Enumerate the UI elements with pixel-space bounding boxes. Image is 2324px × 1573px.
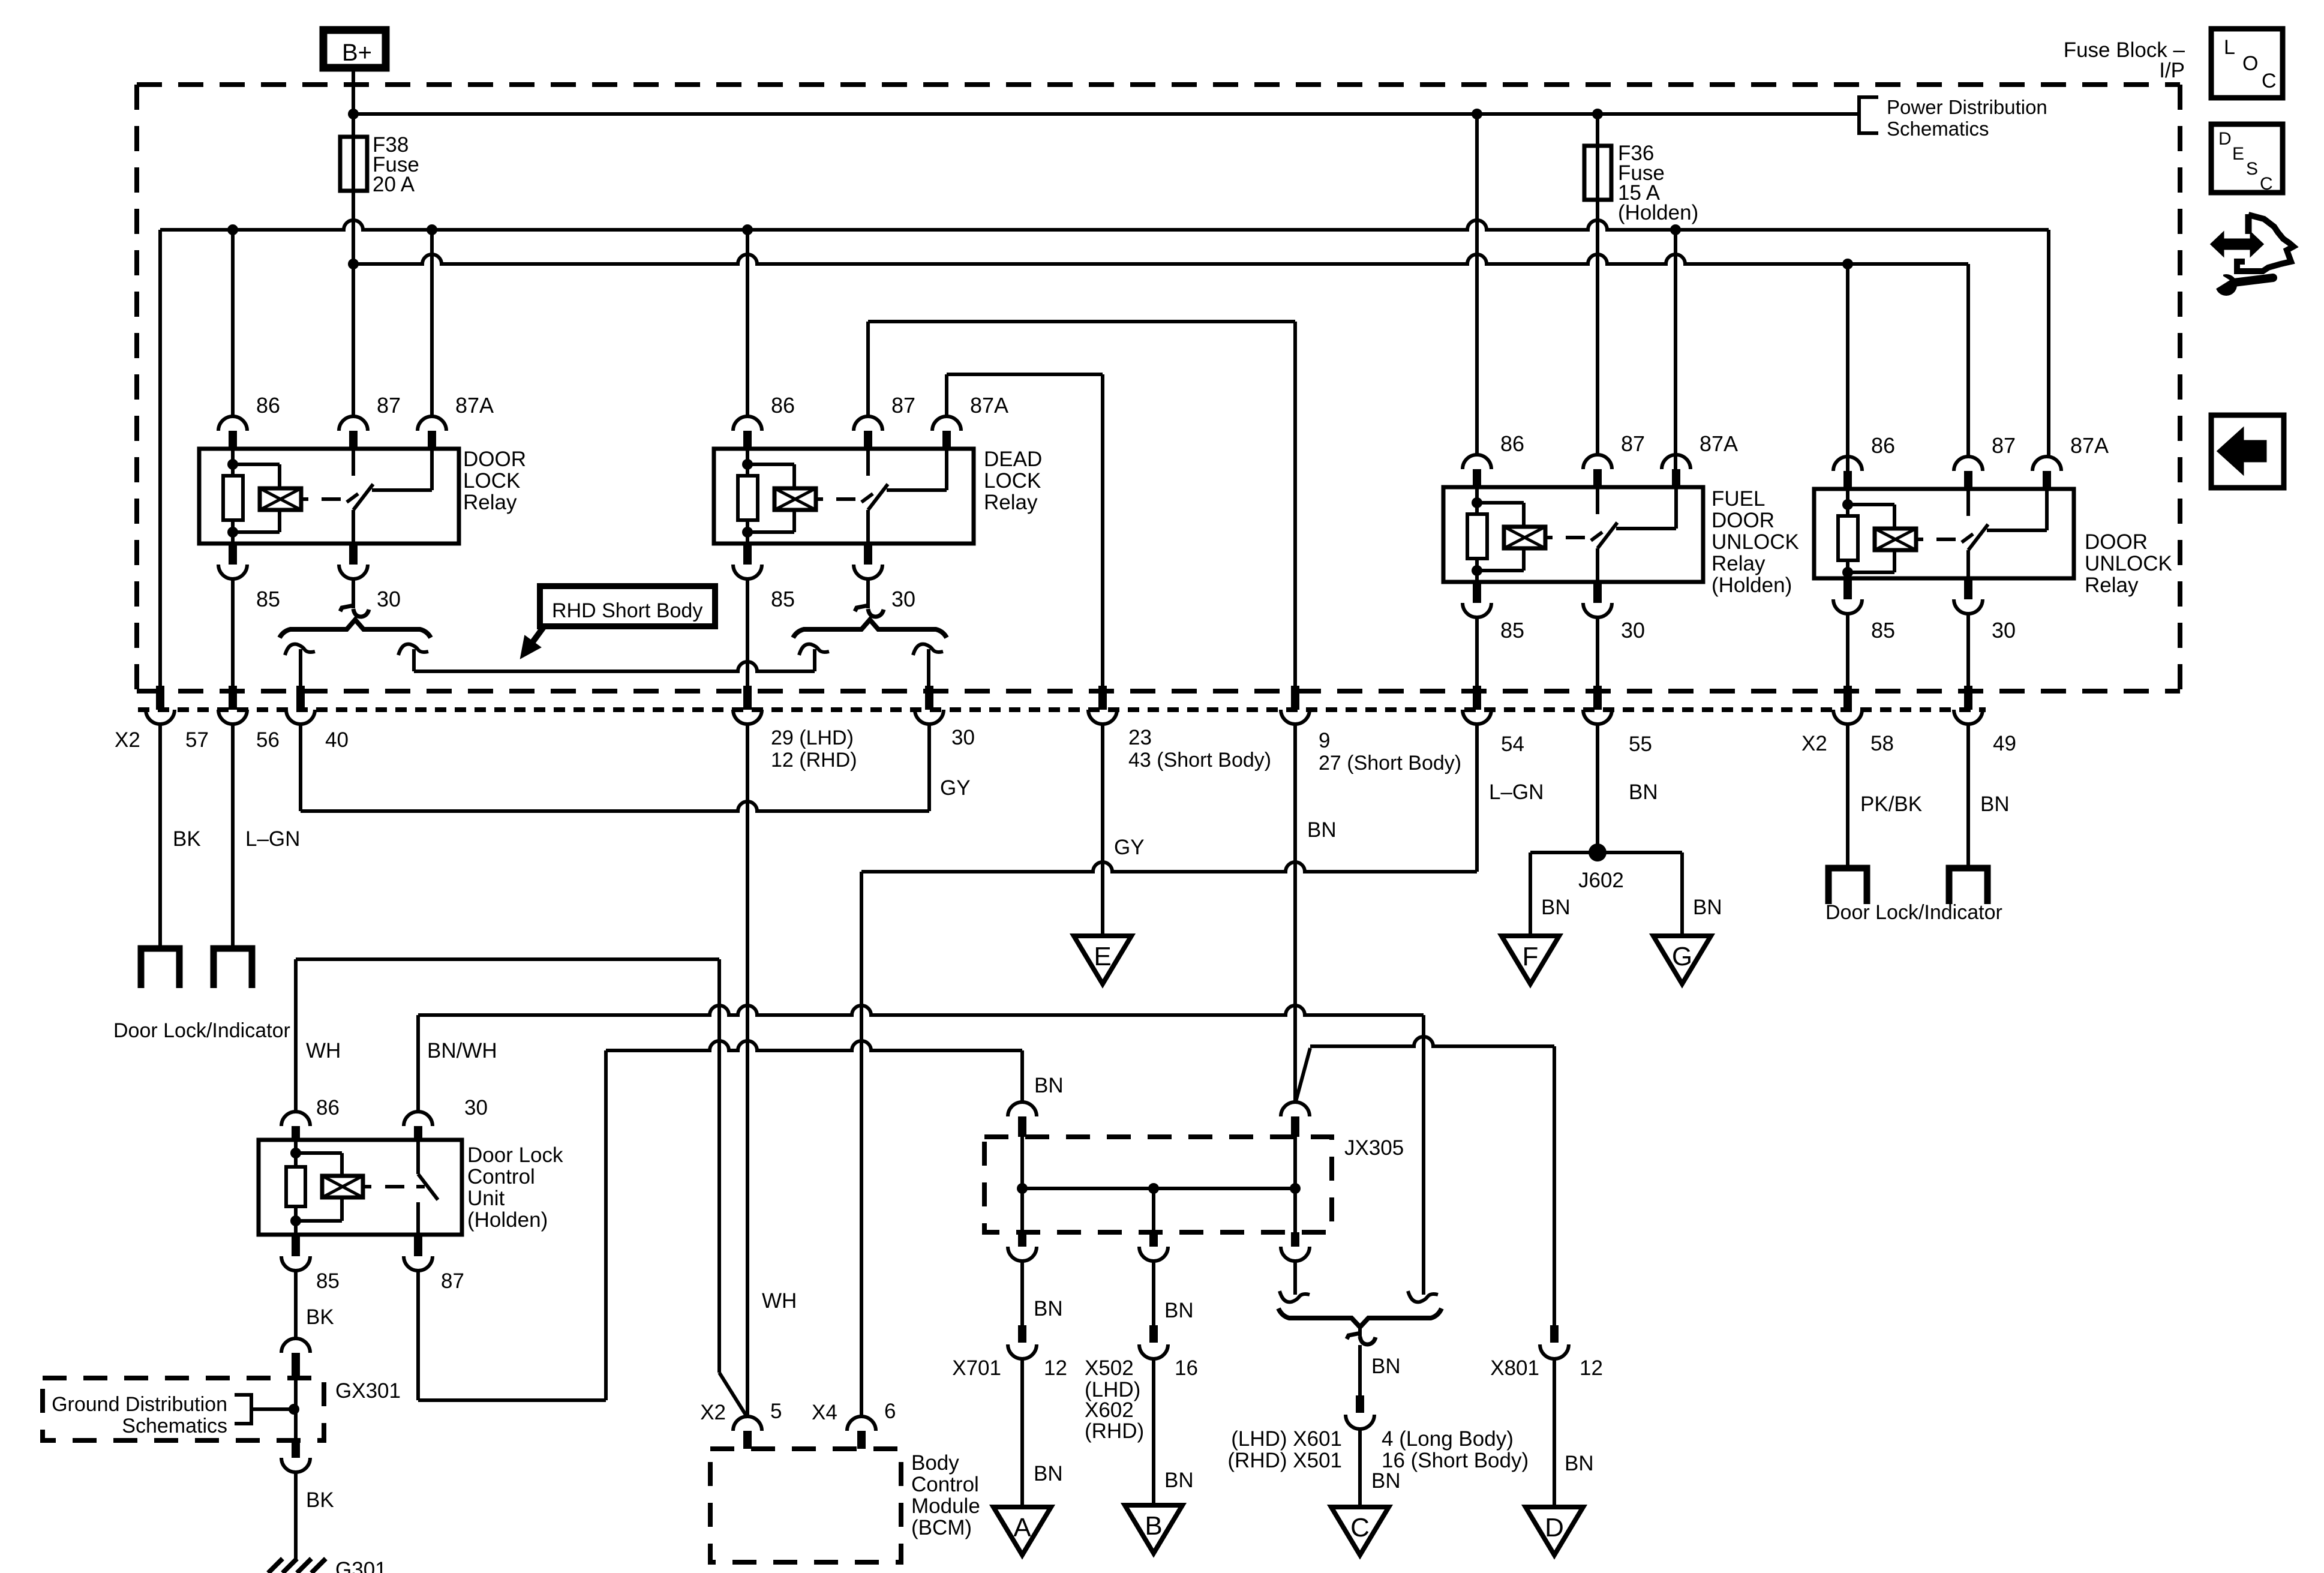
svg-text:A: A [1013,1513,1031,1542]
svg-text:BN: BN [1565,1452,1594,1475]
wire BN connector 9 to junction block JX305 [1293,724,1297,1102]
svg-text:S: S [2246,159,2258,179]
svg-text:BN: BN [1034,1462,1063,1485]
connector D triangle [1526,1507,1583,1555]
svg-text:86: 86 [1871,433,1895,458]
svg-text:43 (Short Body): 43 (Short Body) [1128,749,1271,772]
svg-text:BN: BN [1371,1469,1401,1493]
svg-text:55: 55 [1629,733,1652,756]
junction dot GX301 [289,1404,299,1415]
svg-text:BN: BN [1034,1297,1063,1320]
relay FUEL DOOR UNLOCK coil-to-contact actuation dashes [1545,536,1553,539]
svg-text:87: 87 [1621,431,1645,456]
connector X2 terminal pin 55 [1593,686,1602,710]
reference bracket ground distribution [235,1395,251,1424]
relay DOOR LOCK pin 85 terminal [229,544,237,565]
connector row dotted line (fuse block connectors) [138,707,1986,712]
svg-text:Relay: Relay [1712,552,1765,575]
wire door lock relay 30 output [352,579,355,608]
svg-text:87: 87 [441,1269,464,1293]
svg-text:G: G [1672,942,1692,971]
off-page terminal fork door lock/indicator (BN) [1949,868,1987,904]
option brace door lock 30 (LHD / RHD split) [280,620,431,638]
relay DOOR LOCK coil resistor [231,449,235,464]
svg-text:87: 87 [377,393,401,418]
junction dot rail to fuel door unlock relay 86 [1472,109,1482,119]
relay DOOR UNLOCK pin 86 terminal [1833,457,1862,471]
svg-text:RHD Short Body: RHD Short Body [552,599,702,622]
svg-text:85: 85 [316,1269,340,1293]
relay DOOR UNLOCK pin 85 terminal [1843,578,1852,599]
connector X2 terminal pin 30 [925,686,933,710]
off-page terminal fork door lock/indicator (PK/BK) [1828,868,1867,904]
svg-text:85: 85 [256,587,280,611]
wire from rail to fuel door unlock relay pin 86 [1475,114,1479,455]
svg-text:X2: X2 [115,728,140,752]
svg-text:(Holden): (Holden) [1712,574,1792,597]
wire BN/WH control unit 30 to merge at X601 branch [416,1015,420,1112]
wire BN connector 55 to splice J602 [1596,724,1599,852]
control unit actuation dashes [363,1185,371,1188]
connector X2 terminal pin 57 [156,686,164,710]
merge hook left (JX305 wire) [1280,1291,1310,1302]
svg-text:30: 30 [377,587,401,611]
svg-text:49: 49 [1993,732,2016,755]
relay DOOR UNLOCK pin 30 terminal [1964,578,1972,599]
wire fuel door unlock 85 to connector 54 [1475,617,1479,687]
svg-text:(BCM): (BCM) [911,1516,972,1539]
relay DEAD LOCK coil-to-contact actuation dashes [816,497,823,501]
option hook dead lock RHD branch [913,644,943,655]
svg-text:C: C [1350,1513,1370,1542]
ground G301 symbol [268,1559,326,1573]
svg-text:(Holden): (Holden) [1618,201,1698,224]
relay DEAD LOCK pin 87 terminal [854,416,882,431]
junction dot bus2 to door unlock relay 86 [1842,259,1853,269]
svg-text:6: 6 [884,1400,896,1423]
relay DOOR UNLOCK pin 87A terminal [2032,457,2061,471]
svg-text:Power Distribution: Power Distribution [1887,96,2047,118]
node B+ battery feed box [323,30,386,68]
svg-text:X701: X701 [952,1356,1001,1380]
svg-text:E: E [2232,144,2244,164]
svg-text:87A: 87A [455,393,494,418]
wire BN control unit 87 to junction block JX305 [416,1271,420,1400]
wire dead lock RHD branch riser [813,649,816,671]
relay DOOR LOCK pin 87 internal lead [352,449,355,476]
svg-text:L–GN: L–GN [1489,781,1544,804]
wire BN branch to X801 [1296,1048,1310,1101]
svg-text:E: E [1094,942,1111,971]
wire BN X701 to connector A [1020,1359,1024,1507]
relay FUEL DOOR UNLOCK pin 30 terminal [1593,582,1602,603]
svg-text:BK: BK [173,827,201,851]
relay DEAD LOCK switch contact arm [866,510,870,544]
junction dot bus1 door lock 86 [227,224,238,235]
wire door lock 30 LHD branch to connector 40 [299,649,302,687]
relay FUEL DOOR UNLOCK pin 85 terminal [1473,582,1481,603]
svg-text:X502: X502 [1085,1356,1134,1380]
wire BK from pin 57 to door lock/indicator [158,724,162,948]
wire door lock 30 RHD branch [412,649,416,671]
svg-text:30: 30 [464,1096,488,1119]
svg-text:X2: X2 [1801,732,1827,755]
junction block JX305 dashed box [984,1137,1332,1232]
relay DOOR UNLOCK pin 87 terminal [1954,457,1983,471]
wire GY connector 23 to connector E [1101,724,1104,936]
wire BN X502 to connector B [1152,1359,1155,1505]
svg-text:BN: BN [1693,896,1722,919]
svg-text:G301: G301 [335,1558,387,1573]
svg-text:WH: WH [306,1039,341,1062]
wire BK through GX301 [294,1378,298,1440]
wire WH branch to door lock control unit 86 [294,959,298,1112]
option hook dead lock LHD branch (from RHD link) [799,644,829,655]
JX305 exit terminal 3 [1293,1188,1297,1232]
connector X701 terminal [1018,1325,1026,1343]
svg-text:(LHD) X601: (LHD) X601 [1231,1427,1342,1451]
wire break symbol dead lock 30 [855,605,869,611]
svg-text:J602: J602 [1578,869,1624,892]
relay FUEL DOOR UNLOCK pin 86 terminal [1463,455,1491,469]
svg-text:PK/BK: PK/BK [1860,792,1922,816]
body control module BCM dashed box [710,1449,901,1562]
wire dead lock relay 87 to connector 9 [866,322,870,416]
svg-text:DOOR: DOOR [463,448,526,471]
wire dead lock 86 drop [746,230,749,416]
connector B triangle [1125,1505,1182,1553]
junction dot JX305 middle [1148,1183,1159,1194]
svg-text:85: 85 [1500,618,1524,643]
svg-text:LOCK: LOCK [463,469,520,493]
control unit switch contact arm [416,1140,420,1174]
svg-text:BN: BN [1034,1074,1064,1097]
junction dot B+ rail [348,109,359,119]
svg-text:BN: BN [1629,781,1658,804]
svg-text:X801: X801 [1490,1356,1539,1380]
wire BN JX305 to X502 [1152,1261,1155,1325]
callout box RHD Short Body [540,586,715,626]
connector X2 terminal pin 58 [1843,686,1852,710]
svg-text:BN: BN [1164,1299,1194,1322]
relay DOOR UNLOCK coil winding [1848,503,1894,506]
relay DEAD LOCK pin 87 internal lead [866,449,870,476]
svg-text:12: 12 [1580,1356,1603,1380]
icon car component view with wrench [2211,233,2263,256]
svg-text:B: B [1145,1511,1162,1541]
wire dead lock relay 87A to connector 23 [945,374,948,416]
svg-text:Ground Distribution: Ground Distribution [52,1393,227,1416]
svg-text:BK: BK [306,1488,334,1512]
relay FUEL DOOR UNLOCK coil winding [1477,501,1524,505]
junction block JX305 entry terminal 1 [1008,1102,1037,1116]
svg-text:D: D [2218,129,2232,149]
relay DOOR LOCK pin 87A internal lead [430,449,434,490]
svg-text:BN: BN [1371,1355,1401,1378]
wire door lock 86 drop [231,230,235,416]
svg-text:12: 12 [1044,1356,1067,1380]
svg-text:86: 86 [771,393,795,418]
svg-text:16: 16 [1175,1356,1198,1380]
relay DOOR LOCK coil-to-contact actuation dashes [301,497,308,501]
relay DEAD LOCK pin 86 terminal [733,416,762,431]
JX305 exit terminal 1 [1020,1188,1024,1232]
svg-text:LOCK: LOCK [984,469,1041,493]
connector X502/X602 terminal [1149,1325,1158,1343]
svg-text:87: 87 [1992,433,2016,458]
connector X2 terminal pin 23/43 [1098,686,1107,710]
svg-text:23: 23 [1128,726,1152,749]
option hook door lock LHD branch [285,644,315,655]
connector X2 terminal pin 9/27 [1291,686,1299,710]
icon box left arrow [2211,415,2284,488]
connector G triangle [1653,936,1711,984]
svg-text:(RHD) X501: (RHD) X501 [1227,1449,1342,1472]
connector F triangle [1502,936,1559,984]
svg-text:BN: BN [1980,792,2010,816]
relay DOOR UNLOCK coil-to-contact actuation dashes [1916,538,1923,541]
wire BK to ground G301 [294,1472,298,1560]
control unit pin 87 internal lead [416,1202,420,1235]
svg-text:DOOR: DOOR [1712,509,1774,532]
wire door lock 87 drop [352,264,355,416]
reference bracket to Power Distribution Schematics [1859,97,1878,133]
svg-text:UNLOCK: UNLOCK [1712,530,1799,554]
off-page terminal fork door lock/indicator (BK) [141,948,179,988]
svg-text:29 (LHD): 29 (LHD) [771,727,854,749]
control unit pin 87 terminal [414,1235,422,1256]
svg-text:Relay: Relay [984,491,1038,514]
junction dot JX305 left [1017,1183,1028,1194]
wire bus2 right drop to door unlock relay 87 [1966,264,1970,457]
callout arrow RHD Short Body [533,626,544,642]
svg-text:FUEL: FUEL [1712,487,1765,511]
GX301 lower terminal [292,1440,300,1458]
junction dot bus2 at F38 output [348,259,359,269]
svg-text:JX305: JX305 [1344,1136,1404,1160]
wire GY jumper connector 40 to connector 30 [299,724,302,811]
relay DEAD LOCK pin 85 terminal [743,544,752,565]
ground distribution schematics dashed box [43,1378,324,1440]
wire door unlock 30 to connector 49 [1966,614,1970,687]
wire door unlock 85 to connector 58 [1846,614,1849,687]
svg-text:85: 85 [771,587,795,611]
relay DEAD LOCK box [714,449,974,544]
wire B+ feed down into fuse block [352,68,355,139]
JX305 exit terminal 2 [1152,1188,1155,1232]
svg-text:87A: 87A [970,393,1008,418]
svg-text:F: F [1523,942,1539,971]
relay DOOR LOCK pin 87 terminal [339,416,368,431]
relay DOOR LOCK switch contact arm [352,510,355,544]
svg-text:(RHD): (RHD) [1085,1419,1144,1443]
svg-text:30: 30 [1621,618,1645,643]
svg-text:Unit: Unit [467,1187,505,1210]
connector X2 terminal pin 54 [1473,686,1481,710]
svg-text:12 (RHD): 12 (RHD) [771,749,857,772]
control unit pin 30 terminal [404,1112,433,1126]
wire BN merge to X601 [1358,1345,1362,1395]
wire BN X801 to connector D [1553,1359,1556,1507]
wire break symbol door lock 30 [340,605,354,611]
wire dead lock relay 85 to connector 29 [746,579,749,687]
svg-text:87: 87 [891,393,915,418]
wire BN X601 to connector C [1358,1429,1362,1507]
control unit pin 85 terminal [292,1235,300,1256]
svg-text:Relay: Relay [463,491,517,514]
svg-text:87A: 87A [1700,431,1738,456]
wire dead lock relay 30 output [866,579,870,608]
svg-text:L–GN: L–GN [245,827,300,851]
wire unfused battery rail (top) [353,112,1859,116]
wire bus 2 (F38 output feed) [353,254,1968,264]
relay DOOR UNLOCK box [1814,489,2074,578]
relay DOOR UNLOCK pin 87 internal lead [1966,489,1970,516]
fuse F36 15A (Holden) [1584,146,1611,200]
svg-text:30: 30 [1992,618,2016,643]
wire L-GN connector 54 to BCM X4-6 [1475,724,1479,872]
icon box LOC [2211,29,2283,98]
wire door lock relay 85 to connector 56 [231,579,235,687]
control unit coil winding [296,1151,342,1155]
wire BN JX305 exit 3 to merge [1293,1261,1297,1295]
wire BN from pin 49 to door lock/indicator [1966,724,1970,868]
wire bus 1 (fused feed to relay coils) [160,220,2049,230]
svg-text:30: 30 [891,587,915,611]
connector GX301 terminal [281,1338,310,1353]
control unit pin 86 terminal [281,1112,310,1126]
fuse F38 20A [340,137,367,191]
svg-text:Door Lock/Indicator: Door Lock/Indicator [1825,901,2002,924]
junction dot rail to fuse F36 [1592,109,1603,119]
svg-text:BN/WH: BN/WH [427,1039,497,1062]
junction dot bus1 door lock 87A [427,224,437,235]
icon box DESC [2211,124,2283,193]
svg-text:57: 57 [185,728,209,752]
wire break symbol at merge [1358,1327,1362,1337]
junction block JX305 entry terminal 2 [1281,1102,1310,1116]
wire dead lock 30 branch to connector 30 [927,649,930,687]
wire WH connector 29 to BCM X2-5 [746,724,749,1416]
svg-text:27 (Short Body): 27 (Short Body) [1319,752,1461,775]
svg-text:I/P: I/P [2159,59,2185,82]
relay DOOR UNLOCK switch contact arm [1966,550,1970,578]
connector C triangle [1331,1507,1389,1555]
relay FUEL DOOR UNLOCK switch contact arm [1596,548,1599,582]
svg-text:16 (Short Body): 16 (Short Body) [1382,1449,1529,1472]
connector X2 terminal pin 56 [229,686,237,710]
svg-text:5: 5 [770,1400,782,1423]
junction dot JX305 right [1290,1183,1301,1194]
relay FUEL DOOR UNLOCK coil resistor [1475,487,1479,503]
merge hook right (BN/WH wire) [1408,1291,1438,1302]
svg-text:40: 40 [325,728,349,752]
svg-text:X4: X4 [812,1401,837,1424]
svg-text:DEAD: DEAD [984,448,1042,471]
control unit coil resistor [294,1140,298,1153]
wire BN J602 to connector F [1530,851,1682,854]
svg-text:4 (Long Body): 4 (Long Body) [1382,1427,1514,1451]
merge brace to single wire [1278,1308,1442,1327]
wire PK/BK from pin 58 to door lock/indicator [1846,724,1849,868]
wire RHD short body link [414,662,815,671]
relay FUEL DOOR UNLOCK pin 87 internal lead [1596,487,1599,514]
svg-text:C: C [2260,174,2273,194]
svg-text:20 A: 20 A [373,173,415,196]
svg-text:GY: GY [940,776,971,800]
relay FUEL DOOR UNLOCK pin 87A internal lead [1674,487,1678,529]
wire fuel door unlock 30 to connector 55 [1596,617,1599,687]
svg-text:30: 30 [951,726,975,749]
connector X2 terminal pin 49 [1964,686,1972,710]
svg-text:X602: X602 [1085,1398,1134,1422]
svg-text:(Holden): (Holden) [467,1208,548,1232]
svg-text:L: L [2224,36,2235,59]
svg-text:58: 58 [1870,732,1894,755]
relay DEAD LOCK pin 87A terminal [932,416,961,431]
relay FUEL DOOR UNLOCK pin 87 terminal [1583,455,1612,469]
svg-text:DOOR: DOOR [2085,530,2148,554]
svg-text:WH: WH [762,1289,797,1313]
BCM pin X4-6 terminal [847,1416,876,1431]
relay DEAD LOCK coil resistor [746,449,749,464]
door lock control unit (Holden) box [259,1140,462,1235]
relay FUEL DOOR UNLOCK pin 87A terminal [1662,455,1691,469]
connector A triangle [993,1507,1051,1555]
svg-text:O: O [2242,52,2258,75]
BCM pin X2-5 terminal [733,1416,762,1431]
connector X801 terminal [1550,1325,1559,1343]
option hook door lock RHD branch [398,644,428,655]
wire door lock 87A drop [430,230,434,416]
svg-text:D: D [1545,1513,1564,1542]
relay DOOR LOCK coil winding [233,463,280,466]
svg-text:UNLOCK: UNLOCK [2085,552,2172,575]
svg-text:Schematics: Schematics [122,1415,227,1437]
relay DOOR LOCK pin 87A terminal [418,416,446,431]
svg-text:GY: GY [1114,836,1145,859]
wire BN JX305 to X701 [1020,1261,1024,1325]
svg-text:56: 56 [256,728,280,752]
svg-text:54: 54 [1501,733,1524,756]
off-page terminal fork door lock/indicator (L-GN) [214,948,252,988]
relay DOOR LOCK box [199,449,459,544]
svg-text:Relay: Relay [2085,574,2139,597]
connector X2 terminal pin 29/12 [743,686,752,710]
fuse block dashed boundary [137,82,2180,87]
svg-text:GX301: GX301 [335,1379,401,1403]
relay DOOR UNLOCK pin 87A internal lead [2045,489,2049,530]
relay DEAD LOCK coil winding [747,463,794,466]
svg-text:Door Lock: Door Lock [467,1143,563,1167]
svg-text:86: 86 [256,393,280,418]
relay FUEL DOOR UNLOCK box [1443,487,1703,582]
svg-text:Door Lock/Indicator: Door Lock/Indicator [113,1019,290,1042]
svg-text:87A: 87A [2070,433,2109,458]
connector X601/X501 terminal [1356,1395,1364,1413]
svg-text:BN: BN [1307,818,1337,842]
relay DEAD LOCK pin 87A internal lead [945,449,948,490]
svg-text:C: C [2262,70,2277,92]
relay DOOR LOCK pin 30 terminal [349,544,358,565]
svg-text:Body: Body [911,1451,959,1475]
wire fuel door unlock 87A drop [1674,230,1677,469]
wire bus1 right drop to door unlock relay 87A [2047,230,2050,457]
connector X2 terminal pin 40 [296,686,305,710]
svg-text:B+: B+ [342,40,372,66]
relay DEAD LOCK pin 30 terminal [864,544,872,565]
svg-text:Control: Control [911,1473,979,1496]
